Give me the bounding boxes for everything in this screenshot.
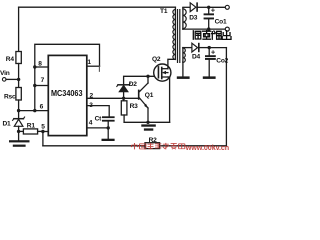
wire secondary1 top to D3 (183, 6, 190, 8)
wire D1 to node (18, 126, 20, 131)
wire Co1 node to terminal (209, 6, 226, 8)
wire gate rail (D2 top to Q2 gate) (124, 76, 159, 84)
svg-text:Co2: Co2 (216, 58, 228, 65)
label isolated output (Chinese 隔离输出) (193, 31, 231, 40)
wire pin 6 (Rsc node to IC) (19, 110, 49, 112)
terminal output bottom (225, 27, 229, 31)
diode D3 (189, 2, 198, 21)
svg-text:MC34063: MC34063 (51, 88, 83, 98)
transformer T1 core (177, 9, 181, 63)
svg-text:8: 8 (38, 60, 42, 67)
wire pin 4 stub (87, 127, 108, 129)
wire pin 8 stub (35, 66, 49, 68)
transformer T1 secondary 1 (183, 8, 186, 30)
svg-text:1: 1 (87, 59, 91, 66)
diode D4 (192, 43, 201, 61)
svg-text:R3: R3 (130, 103, 139, 110)
svg-text:www.00kv.cn: www.00kv.cn (185, 143, 229, 152)
transistor Q1 (138, 76, 154, 122)
capacitor Co2 (205, 48, 229, 77)
wire secondary1 bottom rail (183, 28, 225, 30)
wire R4 to Vin node (18, 64, 20, 80)
wire pin 1 stub (87, 65, 100, 67)
svg-text:Q1: Q1 (145, 92, 154, 99)
node pin7 (33, 84, 36, 87)
wire Q2 drain to primary (168, 59, 176, 68)
watermark (red Chinese characters) (132, 143, 185, 150)
node Vin junction (17, 78, 20, 81)
resistor Rsc (4, 88, 21, 101)
ground (under Q1) (141, 124, 156, 130)
wire secondary2 top to D4 (183, 47, 192, 49)
ground (under secondary2, single bar) (177, 76, 190, 79)
wire Rsc to pin6 node (18, 100, 20, 111)
wire D1 column (18, 111, 20, 118)
node Ct/pin4 (107, 126, 110, 129)
svg-text:7: 7 (41, 77, 45, 84)
svg-text:4: 4 (89, 120, 93, 127)
node pin5 (41, 130, 44, 133)
svg-text:Ct: Ct (95, 115, 103, 122)
wire Q2 source drop (168, 77, 170, 122)
svg-text:6: 6 (40, 103, 44, 110)
svg-text:D2: D2 (129, 81, 138, 88)
svg-text:5: 5 (41, 123, 45, 130)
wire top rail (19, 6, 176, 8)
wire pin5 drop to bottom rail (42, 132, 44, 146)
svg-text:R1: R1 (27, 123, 36, 130)
svg-text:T1: T1 (160, 8, 168, 15)
node Co2 top (208, 46, 211, 49)
resistor R1 (19, 123, 43, 134)
svg-text:Co1: Co1 (215, 19, 227, 26)
wire emitter ground rail (124, 121, 170, 123)
node pin6 x35 (33, 109, 36, 112)
ground (under Co2, single bar) (203, 76, 216, 79)
transistor Q2 (MOSFET) (152, 56, 171, 81)
capacitor Ct (95, 115, 115, 128)
node Rsc bottom (17, 109, 20, 112)
transformer T1 secondary 2 (183, 48, 185, 63)
node Co1 top (207, 6, 210, 9)
resistor R2 (145, 137, 160, 149)
wire left column top (R4 to rail) (18, 7, 20, 51)
wire pins 8-7-6 vertical net (35, 44, 100, 110)
svg-text:+: + (211, 6, 216, 15)
IC U1 MC34063 body (48, 55, 87, 135)
wire right rail (225, 48, 227, 146)
svg-text:Q2: Q2 (152, 56, 161, 63)
wire pin 5 stub (43, 131, 48, 133)
terminal output top (225, 5, 229, 9)
ground (under Ct, single bar) (102, 128, 115, 141)
wire pin 2 to Q1 base (87, 97, 138, 99)
wire D4 to Co2 node (200, 47, 210, 49)
svg-text:D1: D1 (3, 121, 12, 128)
wire secondary2 bottom drop (182, 62, 184, 77)
node pin8 (33, 65, 36, 68)
svg-text:D3: D3 (189, 15, 198, 22)
svg-text:R2: R2 (149, 137, 158, 144)
node Co1 bottom (207, 27, 210, 30)
node D1/R1 (17, 130, 20, 133)
svg-text:D4: D4 (192, 53, 201, 60)
terminal Vin (0, 70, 17, 81)
transformer T1 primary winding (173, 7, 176, 59)
svg-text:Vin: Vin (0, 70, 10, 77)
capacitor Co1 (204, 6, 227, 30)
ground (left, under D1) (9, 131, 30, 146)
resistor R4 (6, 52, 21, 64)
diode D1 (zener) (3, 117, 25, 128)
resistor R3 (121, 98, 138, 122)
svg-text:R4: R4 (6, 56, 15, 63)
wire pin 7 stub (35, 85, 49, 87)
wire pin 1 tail (98, 66, 100, 71)
wire bottom rail (43, 145, 227, 147)
svg-text:+: + (211, 48, 216, 57)
wire Co2 node to right rail (209, 47, 226, 49)
node Q1 collector on gate rail (146, 75, 149, 78)
svg-text:Rsc: Rsc (4, 94, 16, 101)
node emitter/ground (146, 121, 149, 124)
wire D3 to Co1 node (198, 6, 209, 8)
diode D2 (zener) (117, 81, 137, 98)
wire Vin node to Rsc (18, 79, 20, 87)
node D2/R3 on pin2 wire (122, 97, 125, 100)
wire pin 3 to Ct (87, 106, 109, 117)
